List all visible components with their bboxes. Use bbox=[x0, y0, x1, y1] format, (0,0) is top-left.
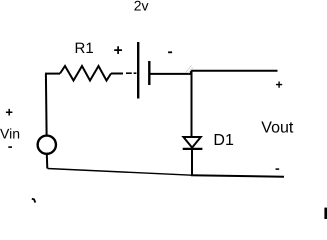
wire: diode to bottom wire bbox=[191, 149, 193, 175]
svg-text:Vout: Vout bbox=[261, 120, 294, 137]
wire: battery to junction bbox=[151, 73, 192, 75]
wire: top-left horizontal into resistor bbox=[45, 73, 60, 75]
voltage source Vin (circle) bbox=[38, 136, 56, 154]
wire: stub below Vin source bbox=[46, 154, 49, 168]
battery positive plate (long) bbox=[137, 42, 139, 99]
wire: junction to top-right terminal bbox=[190, 70, 278, 72]
wire: slanted bottom-left return to Vin source bbox=[48, 169, 192, 176]
battery negative plate (short) bbox=[148, 61, 150, 85]
label - (Vin negative) bbox=[8, 146, 12, 148]
svg-text:2v: 2v bbox=[134, 0, 149, 14]
label - (Vout negative) bbox=[276, 168, 280, 170]
wire: bottom-right horizontal to Vout minus terminal bbox=[191, 175, 284, 177]
svg-text:Vin: Vin bbox=[0, 126, 20, 142]
cursor block (bottom-right) bbox=[324, 208, 327, 219]
diode D1 (triangle, cathode down) bbox=[183, 137, 200, 148]
node: junction step at top of diode branch bbox=[190, 71, 192, 75]
stray pen mark bbox=[32, 199, 36, 203]
svg-text:D1: D1 bbox=[213, 132, 234, 149]
wire: left vertical from top-left corner down to Vin source bbox=[45, 74, 48, 135]
faint sketch smudge near junction bbox=[186, 66, 194, 74]
wire: tiny dash at battery plate bbox=[134, 72, 137, 74]
wire: resistor right lead bbox=[111, 73, 123, 75]
wire: vertical branch down to diode bbox=[191, 71, 193, 137]
label + (Vin positive) bbox=[6, 109, 12, 116]
svg-text:R1: R1 bbox=[75, 40, 94, 57]
diode D1 cathode bar bbox=[183, 148, 203, 150]
label - (battery negative) bbox=[168, 51, 172, 53]
label + (battery positive) bbox=[114, 46, 122, 54]
resistor R1 bbox=[60, 66, 111, 81]
label + (Vout positive) bbox=[276, 82, 282, 88]
wire: dash segment before battery bbox=[126, 72, 132, 74]
